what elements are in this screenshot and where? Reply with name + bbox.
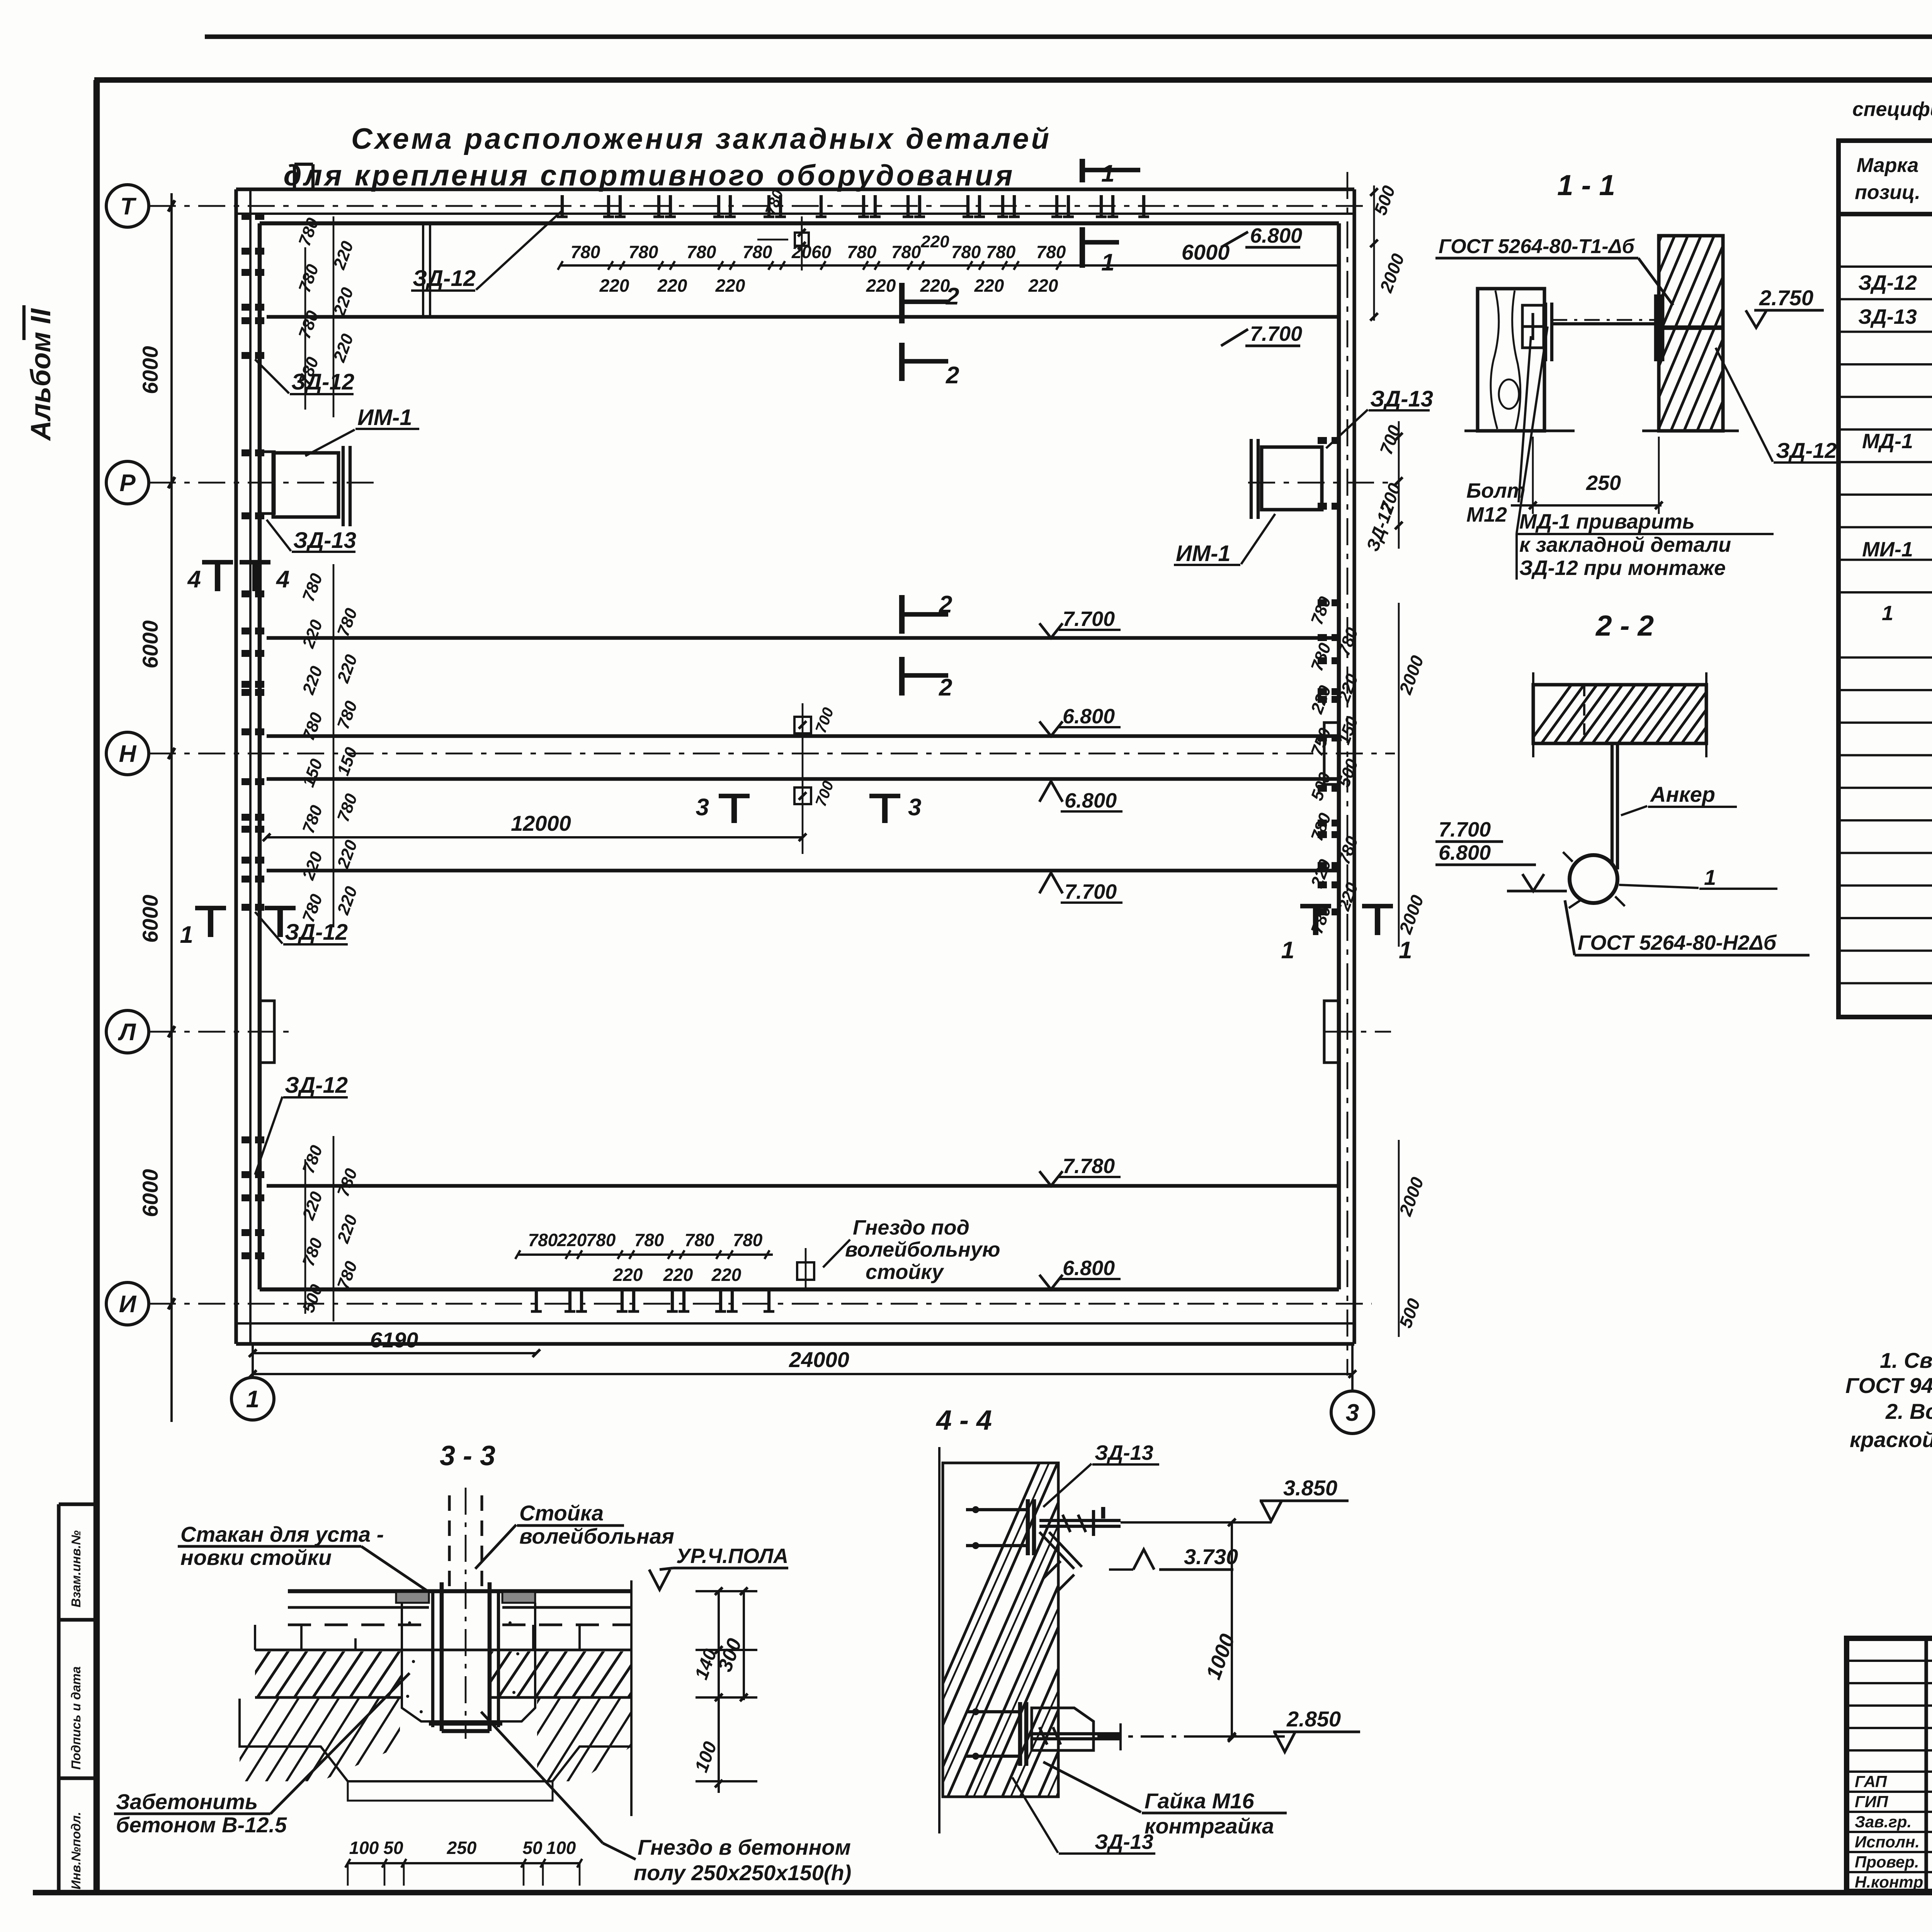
svg-text:6.800: 6.800 [1065, 789, 1117, 812]
svg-text:краской за 2 раза.: краской за 2 раза. [1850, 1427, 1932, 1452]
svg-text:ГОСТ 5264-80-Т1-Δб: ГОСТ 5264-80-Т1-Δб [1439, 235, 1635, 258]
svg-text:волейбольная: волейбольная [519, 1524, 674, 1548]
svg-text:И: И [119, 1291, 137, 1318]
svg-text:ЗД-12: ЗД-12 [1776, 438, 1837, 463]
grid circles [106, 185, 149, 227]
left dimension stacks [333, 216, 335, 417]
svg-text:6.800: 6.800 [1250, 224, 1302, 247]
svg-text:220: 220 [711, 1265, 742, 1285]
svg-text:Н: Н [119, 741, 137, 767]
left dimension line 6000s [170, 193, 173, 1422]
anchor plates on left wall [241, 213, 251, 220]
detail 3-3 post [448, 1495, 451, 1592]
detail 4-4 wall [938, 1447, 940, 1833]
detail 1-1 brick wall [1659, 236, 1723, 431]
svg-text:Л: Л [118, 1019, 136, 1046]
detail 3-3 dim right [630, 1580, 633, 1816]
detail 1-1 bolt plate on post [1522, 305, 1544, 348]
svg-text:М12: М12 [1466, 503, 1507, 526]
svg-text:Р: Р [119, 470, 136, 497]
svg-text:Забетонить: Забетонить [116, 1789, 258, 1814]
svg-text:220: 220 [1028, 276, 1058, 296]
interior level lines [267, 315, 1339, 318]
section marks 1 bottom left [208, 908, 213, 937]
svg-text:Гнездо под: Гнездо под [853, 1216, 969, 1239]
svg-text:стойку: стойку [866, 1260, 944, 1284]
svg-text:1: 1 [180, 922, 193, 948]
svg-text:МД-1: МД-1 [1862, 430, 1913, 453]
anchor plates on right wall [1318, 437, 1327, 444]
sheet top edge line [205, 34, 1932, 39]
svg-text:контргайка: контргайка [1145, 1814, 1274, 1838]
svg-text:780: 780 [687, 242, 716, 262]
svg-text:Стойка: Стойка [519, 1501, 604, 1525]
wall pilaster notches [260, 452, 274, 514]
svg-text:ЗД-13: ЗД-13 [1095, 1441, 1153, 1464]
plan outer walls [234, 189, 238, 1344]
svg-text:3 - 3: 3 - 3 [440, 1440, 495, 1471]
svg-text:к закладной детали: к закладной детали [1519, 533, 1731, 556]
svg-text:ГАП: ГАП [1855, 1772, 1887, 1791]
detail 1-1 ground line [1464, 429, 1575, 432]
grid axes dash-dot lines [149, 205, 1368, 207]
svg-text:6.800: 6.800 [1063, 1257, 1115, 1280]
svg-text:Марка: Марка [1857, 154, 1919, 177]
svg-text:ГОСТ 5264-80-Н2Δб: ГОСТ 5264-80-Н2Δб [1578, 931, 1777, 954]
svg-text:6000: 6000 [138, 1169, 162, 1217]
svg-text:позиц.: позиц. [1855, 181, 1920, 204]
title block signature rows [1847, 1770, 1932, 1773]
svg-text:7.700: 7.700 [1063, 607, 1115, 631]
bottom dimension 24000 [253, 1373, 1352, 1375]
svg-text:2: 2 [939, 674, 952, 701]
svg-text:2: 2 [939, 591, 952, 618]
svg-text:6000: 6000 [1182, 240, 1230, 264]
detail 4-4 dim 1000 [1231, 1522, 1233, 1738]
svg-text:Н.контр: Н.контр [1855, 1873, 1923, 1891]
svg-text:Гайка М16: Гайка М16 [1145, 1789, 1255, 1813]
svg-text:1: 1 [246, 1386, 259, 1413]
svg-text:3: 3 [696, 794, 709, 821]
right dimension stacks [1373, 185, 1375, 321]
svg-text:ЗД-12: ЗД-12 [413, 266, 476, 291]
svg-text:Болт: Болт [1466, 479, 1526, 502]
svg-text:6190: 6190 [370, 1328, 418, 1352]
svg-text:1: 1 [1101, 249, 1114, 276]
svg-text:бетоном В-12.5: бетоном В-12.5 [116, 1813, 287, 1837]
svg-text:4: 4 [276, 566, 289, 593]
svg-text:новки стойки: новки стойки [180, 1545, 332, 1570]
svg-text:1. Сварные соединения выполнят: 1. Сварные соединения выполнять электрод… [1880, 1348, 1932, 1372]
svg-text:ЗД-12 при монтаже: ЗД-12 при монтаже [1519, 556, 1726, 580]
svg-text:для крепления спортивного о: для крепления спортивного оборудования [284, 159, 1015, 192]
bottom dimension 6190 [253, 1352, 536, 1354]
embedded plate bolt marks bottom wall [535, 1291, 538, 1311]
svg-text:1: 1 [1704, 865, 1716, 889]
svg-text:7.700: 7.700 [1250, 322, 1302, 345]
svg-text:3: 3 [1346, 1400, 1359, 1426]
detail 3-3 flange hatched [396, 1592, 429, 1603]
wall corner step top-left [293, 164, 296, 190]
IM-1 right equipment [1262, 447, 1322, 510]
svg-text:780: 780 [847, 242, 877, 262]
svg-text:24000: 24000 [789, 1347, 849, 1372]
svg-text:Альбом II: Альбом II [26, 308, 56, 441]
svg-text:2.750: 2.750 [1759, 286, 1813, 310]
detail 3-3 slab hatch band [255, 1648, 631, 1651]
svg-text:1: 1 [1281, 937, 1294, 964]
svg-text:Инв.№подл.: Инв.№подл. [69, 1812, 83, 1889]
detail 3-3 floor lines [288, 1589, 631, 1594]
svg-text:3.730: 3.730 [1184, 1544, 1238, 1569]
svg-text:780: 780 [743, 242, 772, 262]
svg-text:4: 4 [187, 566, 201, 593]
left margin stamp boxes [57, 1504, 60, 1893]
svg-text:спецификация к схеме распол: спецификация к схеме расположения заклад… [1852, 98, 1932, 121]
top-left partition line [422, 223, 424, 318]
svg-text:6.800: 6.800 [1063, 705, 1115, 728]
svg-text:7.700: 7.700 [1439, 818, 1491, 841]
spec table grid [1838, 141, 1932, 1017]
detail 2-2 hook [1570, 855, 1617, 903]
section marks 2 [899, 283, 905, 323]
svg-text:2 - 2: 2 - 2 [1595, 609, 1654, 642]
detail 3-3 bottom plate [429, 1721, 502, 1726]
svg-text:780: 780 [571, 242, 600, 262]
svg-text:220: 220 [657, 276, 687, 296]
drawing frame [94, 80, 100, 1893]
svg-text:6000: 6000 [138, 346, 162, 394]
bottom gnezdo square [797, 1262, 814, 1280]
svg-text:УР.Ч.ПОЛА: УР.Ч.ПОЛА [676, 1544, 788, 1568]
detail 4-4 bottom anchor [966, 1710, 1020, 1713]
svg-text:ЗД-13: ЗД-13 [1858, 305, 1917, 328]
svg-text:2.850: 2.850 [1286, 1707, 1341, 1731]
svg-text:ЗД-13: ЗД-13 [1095, 1830, 1153, 1854]
level 6.800 top right [1221, 232, 1248, 247]
detail 1-1 wood post [1478, 289, 1544, 431]
svg-text:250: 250 [447, 1838, 477, 1858]
svg-text:ИМ-1: ИМ-1 [357, 405, 412, 430]
svg-text:Взам.инв.№: Взам.инв.№ [69, 1530, 83, 1607]
svg-text:220: 220 [715, 276, 745, 296]
svg-text:780: 780 [528, 1230, 558, 1250]
detail 2-2 anchor rod [1611, 743, 1614, 866]
detail 3-3 dashed layer [288, 1623, 429, 1626]
svg-text:2. Все металлические детали ок: 2. Все металлические детали окрасить мас… [1885, 1399, 1932, 1423]
svg-text:220: 220 [599, 276, 629, 296]
svg-text:780: 780 [1036, 242, 1066, 262]
svg-text:780: 780 [586, 1230, 616, 1250]
svg-text:Зав.гр.: Зав.гр. [1855, 1813, 1912, 1831]
svg-text:1: 1 [1101, 160, 1114, 187]
level 7.700 top right [1221, 329, 1248, 346]
svg-text:7.780: 7.780 [1063, 1155, 1115, 1178]
svg-text:220: 220 [557, 1230, 587, 1250]
embedded plate bolt marks top wall [561, 195, 564, 217]
svg-text:3.850: 3.850 [1283, 1476, 1337, 1500]
svg-text:220: 220 [866, 276, 896, 296]
svg-text:3: 3 [908, 794, 921, 821]
svg-text:780: 780 [986, 242, 1016, 262]
svg-text:780: 780 [685, 1230, 714, 1250]
svg-text:ИМ-1: ИМ-1 [1176, 541, 1231, 566]
svg-text:МД-1 приварить: МД-1 приварить [1519, 510, 1695, 533]
svg-text:220: 220 [920, 232, 949, 251]
detail 1-1 plate in wall [1654, 294, 1658, 361]
svg-text:Т: Т [120, 193, 137, 220]
svg-text:6.800: 6.800 [1439, 841, 1491, 864]
svg-text:1: 1 [1882, 602, 1893, 625]
svg-text:780: 780 [634, 1230, 664, 1250]
svg-text:Подпись и дата: Подпись и дата [69, 1667, 83, 1770]
svg-text:волейбольную: волейбольную [845, 1238, 1000, 1261]
detail 3-3 bottom dims [348, 1862, 580, 1864]
top gnezdo square [795, 233, 809, 246]
section mark 1 top [1080, 159, 1085, 182]
svg-text:Провер.: Провер. [1855, 1853, 1919, 1871]
svg-text:100: 100 [349, 1838, 379, 1858]
svg-text:ЗД-13: ЗД-13 [1370, 386, 1433, 412]
top 6000 dimension [1082, 264, 1339, 267]
svg-text:100: 100 [546, 1838, 576, 1858]
svg-text:220: 220 [613, 1265, 643, 1285]
svg-text:Схема расположения закладных: Схема расположения закладных деталей [351, 122, 1051, 155]
svg-text:Стакан для уста -: Стакан для уста - [180, 1522, 384, 1546]
svg-text:Анкер: Анкер [1650, 782, 1715, 806]
svg-text:2: 2 [946, 362, 959, 389]
svg-text:1 - 1: 1 - 1 [1557, 169, 1615, 201]
top 780/220 dimension row [560, 264, 1082, 267]
svg-text:780: 780 [733, 1230, 763, 1250]
section marks 1 bottom [1313, 906, 1318, 935]
detail 3-3 concrete pocket [402, 1603, 535, 1721]
svg-text:Гнездо в бетонном: Гнездо в бетонном [638, 1835, 851, 1859]
svg-text:50: 50 [383, 1838, 403, 1858]
svg-text:ЗД-12: ЗД-12 [285, 920, 348, 945]
svg-text:220: 220 [663, 1265, 693, 1285]
svg-text:1: 1 [1399, 937, 1412, 964]
svg-text:50: 50 [522, 1838, 543, 1858]
svg-text:12000: 12000 [511, 811, 571, 835]
title block frame [1847, 1638, 1932, 1891]
svg-text:780: 780 [629, 242, 658, 262]
svg-text:780: 780 [891, 242, 921, 262]
svg-text:6000: 6000 [138, 620, 162, 668]
detail 1-1 bolt rod [1552, 322, 1659, 325]
mid level labels [1039, 623, 1063, 638]
svg-text:Исполн.: Исполн. [1855, 1833, 1920, 1851]
bottom axis circles 1 and 3 [231, 1378, 274, 1420]
svg-text:ГИП: ГИП [1855, 1793, 1888, 1811]
bottom 780/220 dimension row [518, 1253, 773, 1256]
svg-text:2: 2 [946, 283, 959, 310]
detail 3-3 pit outline [240, 1699, 631, 1781]
svg-text:250: 250 [1586, 471, 1621, 495]
svg-text:ЗД-12: ЗД-12 [285, 1073, 348, 1098]
12000 dimension [267, 836, 803, 838]
svg-text:МИ-1: МИ-1 [1862, 538, 1913, 561]
detail 2-2 beam [1533, 685, 1706, 743]
svg-text:полу 250х250х150(h): полу 250х250х150(h) [634, 1861, 851, 1885]
detail 3-3 glass sleeve [431, 1592, 434, 1727]
svg-text:220: 220 [974, 276, 1004, 296]
IM-1 left equipment [273, 453, 338, 517]
svg-text:6000: 6000 [138, 895, 162, 943]
volleyball sockets middle [794, 717, 811, 733]
svg-text:4 - 4: 4 - 4 [935, 1405, 992, 1436]
svg-text:ГОСТ 9467-75.: ГОСТ 9467-75. [1845, 1373, 1932, 1398]
detail 4-4 top anchor [966, 1508, 1028, 1511]
title block small rows top-left [1847, 1660, 1932, 1662]
svg-text:ЗД-12: ЗД-12 [1858, 271, 1917, 294]
svg-text:7.700: 7.700 [1065, 880, 1117, 903]
svg-text:ЗД-12: ЗД-12 [291, 369, 354, 395]
svg-text:780: 780 [951, 242, 981, 262]
svg-text:ЗД-13: ЗД-13 [293, 528, 356, 553]
